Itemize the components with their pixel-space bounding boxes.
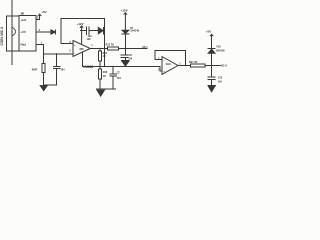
svg-text:+12V: +12V [121,8,128,12]
wire pin 1 to RC rail [36,44,73,53]
resistor R22 (horizontal 2K) [185,65,190,67]
svg-text:R27 2K: R27 2K [189,61,198,64]
wire U1 ground pin drop [81,52,83,66]
diode V5 [122,30,129,33]
ground (C9) [121,59,129,61]
svg-text:+5V: +5V [206,29,211,33]
wire U1 output [90,48,107,50]
svg-text:10k: 10k [87,38,92,41]
junction dots [99,48,100,49]
svg-text:C13: C13 [218,76,223,79]
svg-text:2K: 2K [103,75,106,78]
capacitor C2 (series) [87,27,99,35]
svg-text:104: 104 [218,81,223,84]
svg-text:+HV: +HV [21,18,27,22]
op-amp U1 [73,41,90,57]
wire feedback loop U1 right edge [103,18,105,66]
svg-text:+5V: +5V [21,30,26,34]
wire divider node rail [82,66,162,71]
wire top feed to mic module [11,0,13,65]
svg-text:C7: C7 [117,72,121,75]
svg-text:2: 2 [69,50,71,53]
microphone module M1 body B (pin block) [19,16,36,52]
port arrow (stage out) [98,27,103,33]
svg-text:4M7: 4M7 [32,67,38,71]
svg-text:AD 0: AD 0 [220,63,227,67]
power +5V arrow (mic) [38,14,41,17]
svg-text:N1A: N1A [166,62,171,66]
microphone module M1 body A [7,16,19,51]
svg-text:1: 1 [179,62,181,65]
svg-text:1N4148: 1N4148 [216,50,225,53]
svg-text:+5V: +5V [41,10,46,14]
wire U1 bypass branch [81,30,87,32]
svg-text:LM386: LM386 [83,65,93,69]
capacitor C7 [110,66,117,89]
svg-text:R11 7K: R11 7K [106,43,115,46]
svg-text:CSB1 MIC A: CSB1 MIC A [0,26,4,46]
svg-text:104: 104 [128,57,133,60]
svg-text:V16: V16 [216,46,221,49]
wire feedback loop U1 top [61,17,105,19]
capacitor C4 [53,54,60,85]
capacitor C9 [121,49,128,61]
wire feedback loop U1 left to + input [61,18,73,43]
diode V16 [208,49,215,53]
port arrow (mic out) [51,30,55,34]
resistor R5 [43,54,45,64]
ground (divider) [97,88,116,90]
svg-text:306: 306 [79,47,84,51]
svg-text:MI: MI [21,12,24,16]
svg-text:-: - [163,58,164,62]
svg-text:AD 1: AD 1 [142,46,148,49]
svg-text:104: 104 [117,77,122,80]
svg-text:104: 104 [60,69,65,72]
op-amp N1A [162,57,178,75]
svg-text:-: - [74,51,75,55]
power +12V arrow (U1) [80,26,83,45]
wire N1A feedback loop [155,50,185,65]
transducer arc [13,28,16,36]
resistor R26 [99,66,101,69]
wire pin 3 to +5V [36,17,40,20]
svg-text:R26: R26 [103,71,108,74]
svg-text:1K: 1K [103,55,106,58]
power +12V arrow (top center) [124,13,127,30]
wire pin 2 [36,31,51,33]
ground (mic RC) [44,84,57,86]
power +5V arrow (right) [210,34,213,35]
svg-text:7: 7 [91,45,93,48]
capacitor C13 [208,66,215,86]
ground (output) [208,84,215,86]
svg-text:Pad: Pad [21,43,27,47]
resistor R24 [99,49,101,52]
wire clamp diode branch [211,53,213,65]
resistor R11 (horizontal 7K) [108,47,119,50]
svg-text:1N4148: 1N4148 [130,30,139,33]
svg-text:+: + [74,43,76,47]
svg-text:+12V: +12V [77,22,84,26]
